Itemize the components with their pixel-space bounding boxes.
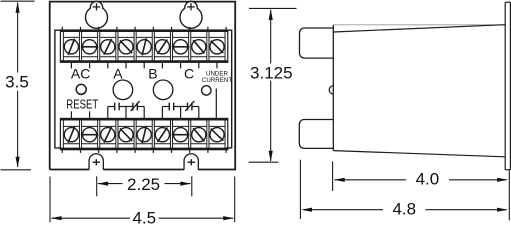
- svg-text:AC: AC: [71, 66, 90, 82]
- upper strip cell divider 7: [188, 30, 190, 62]
- dim 3.5 dimension line: [17, 3, 19, 73]
- slot cross mark: [188, 161, 195, 163]
- under-current indicator lamp: [202, 86, 211, 95]
- side view bottom edge: [333, 151, 505, 157]
- dim 4.5 dimension line: [52, 217, 131, 219]
- svg-text:C: C: [184, 66, 194, 82]
- dim 4.0/4.8 right extension line: [508, 170, 510, 220]
- dim 3.5 top extension line: [1, 0, 35, 2]
- lower cell recess lines 7: [173, 125, 189, 127]
- svg-text:RESET: RESET: [66, 98, 98, 112]
- svg-text:4.0: 4.0: [416, 170, 440, 189]
- svg-text:4.8: 4.8: [392, 200, 416, 219]
- lower terminal screw 1: [64, 128, 78, 142]
- svg-text:4.5: 4.5: [132, 208, 156, 227]
- upper terminal screw 9: [210, 40, 224, 54]
- lower strip cell divider 6: [169, 118, 171, 149]
- side view upper terminal block: [300, 28, 334, 58]
- lower strip cell divider 7: [188, 118, 190, 149]
- upper cell recess lines 8: [191, 36, 207, 38]
- side view latch bump: [329, 86, 333, 94]
- upper strip cell divider 4: [133, 30, 135, 62]
- lower cell recess lines 5: [136, 125, 152, 127]
- front view enclosure outline: [50, 2, 236, 170]
- mounting keyhole at x=96.5: [86, 1, 108, 28]
- dim 2.25 right extension line: [191, 176, 193, 196]
- svg-text:3.5: 3.5: [5, 72, 29, 91]
- dim 2.25 dimension line: [98, 183, 123, 185]
- dim 3.5 bottom extension line: [1, 169, 32, 171]
- relay contact group 2: legs to terminals: [161, 107, 163, 119]
- lower cell recess lines 6: [154, 125, 170, 127]
- upper terminal screw 8: [192, 40, 206, 54]
- mounting flange bottom cap: [505, 169, 510, 171]
- upper cell recess lines 5: [136, 36, 152, 38]
- svg-text:A: A: [113, 66, 123, 82]
- upper cell recess lines 2: [82, 36, 98, 38]
- dim 3.125 top extension line: [249, 7, 297, 9]
- upper strip cell divider 6: [169, 30, 171, 62]
- side view lower terminal block: [299, 119, 333, 148]
- lower strip cell divider 2: [97, 118, 99, 149]
- upper terminal screw 7: [174, 40, 188, 54]
- lower strip thick bottom edge: [60, 148, 227, 150]
- upper cell recess lines 3: [100, 36, 116, 38]
- mounting flange left edge: [504, 2, 506, 170]
- lower strip cell divider 1: [78, 118, 80, 149]
- reset wire stubs to terminals 1-2: [70, 111, 72, 118]
- pushbutton A: [113, 80, 133, 100]
- lower cell recess lines 1: [63, 125, 79, 127]
- lower strip thick top edge: [60, 118, 227, 120]
- upper cell recess lines 4: [118, 36, 134, 38]
- upper cell recess lines 6: [154, 36, 170, 38]
- relay contact group 1: legs to terminals: [107, 107, 109, 119]
- NC contact 1: [132, 103, 134, 111]
- slot cross mark: [93, 161, 100, 163]
- dim 4.5 right extension line: [234, 177, 236, 223]
- upper terminal screw 5: [137, 40, 151, 54]
- upper terminal screw 3: [101, 40, 115, 54]
- side view body front face: [332, 25, 334, 151]
- lower cell recess lines 2: [82, 125, 98, 127]
- lower cell recess lines 8: [191, 125, 207, 127]
- lower cell recess lines 4: [118, 125, 134, 127]
- terminal cover bracket left: [55, 30, 61, 148]
- keyhole cross mark: [187, 6, 195, 8]
- AC indicator lamp: [76, 84, 86, 94]
- NC contact slash 2: [185, 101, 194, 111]
- lower strip cell divider 8: [206, 118, 208, 149]
- tick marks above upper strip at cell boundaries: [61, 27, 63, 30]
- tick marks below lower strip at cell boundaries: [61, 150, 63, 153]
- dim 4.0 dimension line: [335, 179, 407, 181]
- mounting flange top cap: [505, 1, 510, 3]
- relay contact group 2: connecting wire: [162, 106, 169, 108]
- lower terminal strip body: [60, 118, 227, 149]
- pushbutton B: [153, 80, 173, 100]
- upper cell recess lines 1: [63, 36, 79, 38]
- dim 4.8 left extension line: [299, 160, 301, 219]
- upper terminal screw 6: [155, 40, 169, 54]
- wire from under-current lamp to terminal 9: [215, 89, 217, 119]
- lower terminal screw 8: [192, 128, 206, 142]
- upper strip inner side lines: [62, 30, 64, 62]
- dim 2.25 left extension line: [96, 176, 98, 196]
- mounting keyhole at x=191.0: [180, 1, 202, 28]
- NO contact 2: [168, 103, 170, 111]
- NO contact 1: [114, 103, 116, 111]
- svg-text:CURRENT: CURRENT: [202, 77, 232, 84]
- mounting flange right edge: [509, 2, 511, 170]
- upper strip thick top edge: [60, 30, 227, 32]
- lower terminal screw 3: [101, 128, 115, 142]
- upper strip cell divider 1: [78, 30, 80, 62]
- lower terminal screw 2: [83, 128, 97, 142]
- svg-text:3.125: 3.125: [250, 64, 293, 83]
- lower terminal screw 6: [155, 128, 169, 142]
- lower terminal screw 7: [174, 128, 188, 142]
- NC contact slash 1: [131, 101, 140, 111]
- upper strip cell divider 8: [206, 30, 208, 62]
- svg-text:B: B: [148, 66, 157, 82]
- upper strip thick bottom edge: [60, 60, 227, 62]
- dim 4.8 dimension line: [304, 209, 383, 211]
- lower strip cell divider 4: [133, 118, 135, 149]
- side view top rear edge (faint): [333, 24, 505, 26]
- relay contact group 1: connecting wire: [108, 106, 115, 108]
- lower strip cell divider 5: [151, 118, 153, 149]
- upper cell recess lines 7: [173, 36, 189, 38]
- upper cell recess lines 9: [209, 36, 225, 38]
- keyhole cross mark: [93, 6, 101, 8]
- lower strip cell divider 3: [115, 118, 117, 149]
- dim 3.125 bottom extension line: [249, 161, 279, 163]
- upper terminal strip body: [60, 30, 227, 62]
- upper strip cell divider 5: [151, 30, 153, 62]
- NC contact 2: [187, 103, 189, 111]
- lower terminal screw 5: [137, 128, 151, 142]
- dim 3.125 dimension line: [270, 10, 272, 64]
- terminal cover bracket right: [226, 30, 232, 148]
- bottom mounting slot at x=191.2: [184, 154, 198, 170]
- upper terminal screw 1: [64, 40, 78, 54]
- lower cell recess lines 3: [100, 125, 116, 127]
- upper strip cell divider 2: [97, 30, 99, 62]
- lower cell recess lines 9: [209, 125, 225, 127]
- lower strip inner side lines: [62, 118, 64, 149]
- upper strip cell divider 3: [115, 30, 117, 62]
- dim 4.5 left extension line: [49, 177, 51, 223]
- upper terminal screw 4: [119, 40, 133, 54]
- upper terminal screw 2: [83, 40, 97, 54]
- side view top edge: [333, 25, 505, 32]
- svg-text:2.25: 2.25: [127, 175, 160, 194]
- lower terminal screw 9: [210, 128, 224, 142]
- wire stubs below upper strip at terminal centers: [70, 62, 72, 68]
- bottom mounting slot at x=96.2: [89, 154, 103, 170]
- lower terminal screw 4: [119, 128, 133, 142]
- dim 4.0 left extension line: [332, 161, 334, 191]
